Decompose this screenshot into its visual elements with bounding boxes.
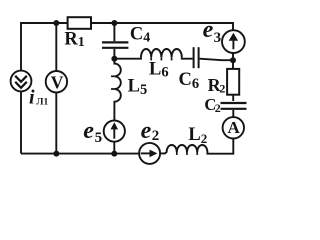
svg-text:Л1: Л1	[36, 97, 48, 107]
svg-text:e: e	[141, 118, 152, 144]
svg-text:L6: L6	[149, 60, 169, 81]
svg-text:3: 3	[214, 30, 222, 46]
svg-text:A: A	[228, 118, 241, 137]
svg-text:L2: L2	[188, 125, 207, 146]
svg-text:2: 2	[152, 128, 160, 144]
svg-text:V: V	[51, 73, 64, 93]
svg-text:C4: C4	[130, 25, 150, 46]
svg-text:R2: R2	[208, 75, 226, 96]
svg-text:C2: C2	[204, 95, 220, 115]
svg-text:L5: L5	[128, 76, 148, 98]
svg-text:i: i	[29, 86, 35, 108]
svg-text:e: e	[203, 17, 214, 43]
svg-text:5: 5	[95, 130, 103, 146]
svg-text:e: e	[83, 118, 94, 144]
svg-text:R1: R1	[64, 30, 84, 51]
svg-text:C6: C6	[179, 70, 200, 92]
